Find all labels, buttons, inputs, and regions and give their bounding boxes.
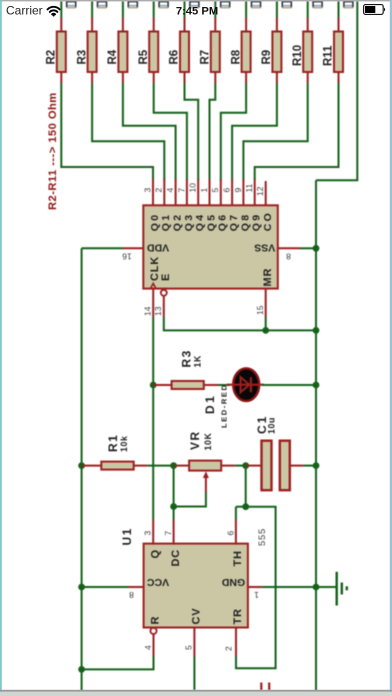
U2 pin 4 (Q2) stub	[175, 179, 177, 206]
U1 pin 8 (VCC) stub	[128, 586, 144, 588]
resistor R10 bottom pin	[307, 72, 309, 83]
resistor R11 top pin	[338, 18, 340, 32]
svg-text:5: 5	[210, 188, 220, 193]
svg-text:12: 12	[255, 186, 265, 196]
U1 pin 5 (CV) stub	[193, 628, 195, 657]
svg-text:7: 7	[163, 531, 173, 536]
wire node to 555 TH pin	[236, 506, 246, 508]
U1 pin 4 (R) inversion bubble	[150, 628, 156, 634]
resistor R2 bottom pin	[60, 72, 62, 83]
counter IC U2 (4017) body	[143, 205, 277, 288]
svg-text:TR: TR	[232, 608, 244, 624]
svg-text:15: 15	[255, 305, 265, 315]
svg-text:CO: CO	[262, 211, 274, 232]
svg-text:VSS: VSS	[254, 242, 275, 254]
resistor R4	[118, 32, 127, 73]
resistor R5 top pin	[153, 18, 155, 32]
svg-text:Q: Q	[149, 550, 161, 559]
junction R1 / power rail	[78, 462, 85, 469]
svg-text:7: 7	[176, 188, 186, 193]
wire R7 to 4017 pin	[210, 83, 216, 180]
wire C1 node down to TH/TR node	[245, 466, 247, 507]
svg-text:R2: R2	[46, 50, 58, 65]
svg-text:Q1: Q1	[160, 212, 172, 231]
svg-text:555: 555	[257, 528, 268, 546]
svg-text:10K: 10K	[203, 433, 213, 451]
terminal square T4 (cut-off symbol at top of R4 wire)	[128, 1, 138, 8]
wire from top terminal to resistor R7	[214, 1, 216, 17]
potentiometer VR left pin	[174, 465, 190, 467]
terminal square T3 (cut-off symbol at top of R3 wire)	[97, 1, 107, 8]
wire VR to C1 node	[235, 465, 246, 467]
svg-text:6: 6	[225, 531, 235, 536]
svg-text:R5: R5	[138, 49, 150, 64]
LED D1 diode symbol	[241, 377, 250, 392]
potentiometer VR	[189, 461, 221, 471]
resistor R6 top pin	[184, 18, 186, 32]
junction MR / E-ground wire	[262, 327, 269, 334]
svg-text:3: 3	[143, 531, 153, 536]
potentiometer VR right pin	[221, 465, 235, 467]
wire DC node down to 555 DC pin	[173, 466, 175, 520]
wire R4 to 4017 pin	[123, 83, 176, 180]
terminal square T5 (cut-off symbol at top of R5 wire)	[159, 1, 169, 8]
svg-text:R2-R11 ---> 150 Ohm: R2-R11 ---> 150 Ohm	[47, 92, 59, 210]
svg-text:Q7: Q7	[228, 212, 240, 231]
resistor R8	[242, 32, 251, 73]
junction VSS/ground rail	[313, 245, 320, 252]
wire from top terminal to resistor R11	[338, 1, 340, 17]
wire VCC to power rail	[82, 586, 128, 588]
capacitor C1 left pin	[246, 465, 262, 467]
resistor R10 top pin	[307, 18, 309, 32]
svg-text:4: 4	[165, 188, 175, 193]
svg-text:1K: 1K	[193, 355, 203, 367]
svg-text:1: 1	[199, 188, 209, 193]
U2 pin 16 (VDD) stub	[123, 247, 143, 249]
wire E pin to ground rail	[164, 317, 316, 330]
svg-text:CV: CV	[191, 608, 203, 625]
node: VR / C1 / TH-TR junction	[242, 462, 249, 469]
svg-text:4: 4	[143, 645, 153, 650]
LED D1 leads	[227, 384, 264, 386]
svg-text:10u: 10u	[267, 417, 277, 434]
resistor R3 left pin	[153, 384, 171, 386]
U2 CLK clock caret	[150, 283, 156, 288]
wire R pin to power rail	[82, 656, 154, 669]
resistor R3 bottom pin	[91, 72, 93, 83]
resistor R3 right pin	[204, 384, 218, 386]
wire MR to ground wire	[265, 317, 267, 330]
wire 4017 CLK down to R3 node	[152, 317, 154, 385]
resistor R5	[149, 32, 158, 73]
resistor R1 left pin	[82, 465, 102, 467]
resistor R2	[57, 32, 66, 73]
resistor R3 top pin	[91, 18, 93, 32]
terminal square T6 (cut-off symbol at top of R6 wire)	[190, 1, 200, 8]
wire R3 to LED D1	[218, 384, 230, 386]
svg-text:10: 10	[188, 183, 198, 193]
svg-text:R6: R6	[169, 50, 181, 65]
svg-text:R11: R11	[323, 45, 335, 66]
U2 pin 1 (Q5) stub	[209, 179, 211, 206]
svg-text:DC: DC	[170, 549, 182, 567]
svg-text:Q5: Q5	[205, 212, 217, 231]
svg-text:Q4: Q4	[194, 212, 206, 231]
node: 555 output / R3 / CLK junction	[150, 382, 157, 389]
wire R2 to 4017 pin	[61, 83, 153, 180]
svg-text:LED-RED: LED-RED	[219, 383, 228, 428]
svg-text:R3: R3	[180, 349, 194, 367]
resistor R8 bottom pin	[245, 72, 247, 83]
svg-text:MR: MR	[262, 268, 274, 287]
resistor R6	[180, 32, 189, 73]
wire GND pin to ground symbol (crosses TR wire, no junction)	[262, 586, 337, 588]
wire from top terminal to resistor R2	[60, 1, 62, 17]
svg-text:3: 3	[142, 188, 152, 193]
right edge strip	[390, 0, 392, 696]
junction C1 / ground rail	[313, 462, 320, 469]
svg-text:TH: TH	[232, 550, 244, 566]
U2 pin 2 (Q1) stub	[163, 179, 165, 206]
svg-text:6: 6	[222, 188, 232, 193]
wire VDD to left power rail	[82, 247, 123, 249]
svg-text:7:45 PM: 7:45 PM	[176, 6, 218, 18]
svg-text:Q8: Q8	[239, 212, 251, 231]
svg-text:Q9: Q9	[251, 212, 263, 231]
U1 pin 1 (GND) stub	[248, 586, 262, 588]
U2 pin 15 (MR) stub	[265, 289, 267, 317]
svg-text:2: 2	[154, 188, 164, 193]
svg-text:1: 1	[254, 590, 259, 600]
svg-text:Carrier: Carrier	[6, 4, 43, 18]
svg-text:2: 2	[224, 646, 234, 651]
U2 pin 13 (E) stub	[163, 295, 165, 317]
resistor R7	[211, 32, 220, 73]
timer IC U1 (555) body	[144, 544, 248, 628]
wire R3 to 4017 pin	[92, 83, 164, 180]
svg-text:E: E	[160, 274, 172, 281]
U1 pin 7 (DC) stub	[173, 520, 175, 545]
wire from top terminal to resistor R3	[91, 1, 93, 17]
cut-off capacitor plates at bottom	[261, 683, 269, 691]
svg-text:VCC: VCC	[146, 576, 169, 588]
bottom bar	[0, 690, 392, 692]
resistor R3	[88, 32, 97, 73]
U2 pin 6 (Q7) stub	[231, 179, 233, 206]
wire R11 to 4017 pin	[255, 83, 339, 180]
svg-text:11: 11	[244, 183, 254, 192]
svg-text:16: 16	[122, 251, 132, 261]
svg-text:GND: GND	[221, 576, 245, 588]
U1 pin 6 (TH) stub	[235, 520, 237, 545]
resistor R9 bottom pin	[276, 72, 278, 83]
resistor R7 top pin	[214, 18, 216, 32]
wire R5 to 4017 pin	[154, 83, 187, 180]
node: R1 / VR / DC junction	[170, 462, 177, 469]
resistor R10	[303, 32, 312, 73]
resistor R4 top pin	[122, 18, 124, 32]
wire R9 to 4017 pin	[232, 83, 277, 180]
svg-text:VR: VR	[188, 430, 202, 450]
ground symbol	[337, 572, 347, 606]
wire VR wiper to DC node	[174, 493, 206, 507]
svg-text:R9: R9	[261, 50, 273, 65]
terminal square T7 (cut-off symbol at top of R7 wire)	[220, 1, 230, 8]
wire from top terminal to resistor R5	[153, 1, 155, 17]
resistor R1	[101, 462, 133, 470]
VR wiper arrow	[203, 471, 209, 478]
U2 pin 5 (Q6) stub	[220, 179, 222, 206]
terminal square T8 (cut-off symbol at top of R8 wire)	[251, 1, 261, 8]
wifi icon	[48, 7, 60, 14]
resistor R2 top pin	[60, 18, 62, 32]
resistor R1 right pin	[134, 465, 148, 467]
svg-text:9: 9	[233, 188, 243, 193]
svg-text:R3: R3	[76, 50, 88, 65]
junction LED / ground rail	[313, 382, 320, 389]
svg-text:R8: R8	[230, 49, 242, 64]
U2 pin 12 (CO) stub, unconnected	[265, 181, 267, 206]
resistor R4 bottom pin	[122, 72, 124, 83]
node: TH / TR junction	[242, 503, 249, 510]
svg-text:Q3: Q3	[183, 212, 195, 231]
U2 pin 11 (Q9) stub	[254, 179, 256, 206]
U1 pin 3 (Q) stub	[152, 520, 154, 545]
svg-text:R1: R1	[106, 434, 120, 452]
svg-text:Q0: Q0	[149, 212, 161, 231]
U2 pin 8 (VSS) stub	[278, 247, 300, 249]
resistor R11 bottom pin	[338, 72, 340, 83]
U2 pin 7 (Q3) stub	[186, 179, 188, 206]
wire from top terminal to resistor R6	[184, 1, 186, 17]
resistor R11	[334, 32, 343, 73]
svg-text:13: 13	[153, 306, 163, 316]
resistor R5 bottom pin	[153, 72, 155, 83]
U2 pin 13 (E) inversion bubble	[161, 290, 167, 296]
wire LED D1 to ground rail	[262, 384, 316, 386]
left VDD power rail	[81, 248, 83, 691]
junction E wire / ground rail	[313, 327, 320, 334]
svg-text:5: 5	[184, 645, 194, 650]
VR wiper lead	[205, 478, 207, 493]
svg-text:R7: R7	[200, 50, 212, 65]
U2 pin 3 (Q0) stub	[152, 179, 154, 206]
ground rail vertical	[315, 180, 317, 691]
wire R10 to 4017 pin	[243, 83, 307, 180]
right rail from top	[316, 1, 357, 180]
svg-text:Q2: Q2	[172, 212, 184, 231]
wire from top terminal to resistor R4	[122, 1, 124, 17]
terminal square T2 (cut-off symbol at top of R2 wire)	[66, 1, 76, 8]
svg-text:R10: R10	[292, 45, 304, 66]
svg-text:Q6: Q6	[217, 212, 229, 231]
wire R3 node down to 555 Q pin	[152, 385, 154, 520]
status bar top line	[0, 0, 392, 1]
U2 pin 10 (Q4) stub	[197, 179, 199, 206]
svg-text:D1: D1	[203, 394, 217, 414]
capacitor C1	[262, 441, 290, 491]
terminal square T10 (cut-off symbol at top of R10 wire)	[313, 1, 323, 8]
resistor R9 top pin	[276, 18, 278, 32]
wire node to 555 TR pin (around right side)	[236, 507, 276, 669]
U2 pin 14 (CLK) stub	[152, 289, 154, 317]
resistor R9	[272, 32, 281, 73]
wire from top terminal to resistor R9	[276, 1, 278, 17]
capacitor C1 right pin	[290, 465, 304, 467]
wire from top terminal to resistor R8	[245, 1, 247, 17]
left edge strip	[0, 0, 2, 696]
terminal square T9 (cut-off symbol at top of R9 wire)	[282, 1, 292, 8]
wire R6 to 4017 pin	[185, 83, 199, 180]
resistor R8 top pin	[245, 18, 247, 32]
svg-text:8: 8	[286, 251, 291, 261]
junction GND wire / ground rail	[313, 584, 320, 591]
U2 pin 9 (Q8) stub	[242, 179, 244, 206]
resistor R7 bottom pin	[214, 72, 216, 83]
wire from top terminal to resistor R10	[307, 1, 309, 17]
wire VSS to ground rail	[300, 247, 316, 249]
wire R8 to 4017 pin	[221, 83, 246, 180]
wire CV down off-screen	[193, 657, 195, 691]
resistor R6 bottom pin	[184, 72, 186, 83]
junction wiper / DC vertical	[170, 503, 177, 510]
svg-text:R4: R4	[107, 49, 119, 64]
junction VCC / power rail	[78, 584, 85, 591]
svg-text:VDD: VDD	[146, 242, 169, 254]
terminal square T11 (cut-off symbol at top of R11 wire)	[344, 1, 354, 8]
resistor R3	[172, 381, 204, 389]
wire C1 to ground rail	[304, 465, 316, 467]
wire R1 to VR node (crosses 555 output, no junction)	[148, 465, 174, 467]
svg-text:14: 14	[142, 306, 152, 316]
svg-text:R: R	[150, 617, 162, 625]
LED D1	[233, 368, 259, 401]
junction R wire / power rail	[78, 666, 85, 673]
svg-text:10k: 10k	[119, 436, 129, 452]
U1 pin 4 (R) stub	[153, 634, 155, 656]
U1 pin 2 (TR) stub	[235, 628, 237, 657]
svg-text:U1: U1	[120, 527, 134, 545]
battery icon	[364, 5, 385, 15]
svg-text:8: 8	[129, 590, 134, 600]
